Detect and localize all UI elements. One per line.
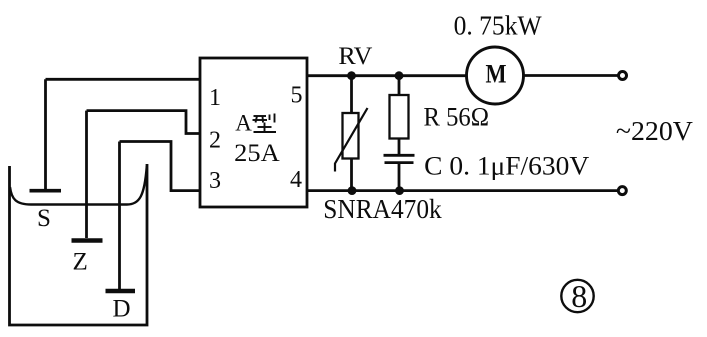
wire pin 4 to bottom terminal (bottom rail) <box>307 189 618 192</box>
terminal top <box>619 72 627 80</box>
svg-text:S: S <box>37 205 51 232</box>
node junction bottom left (RV) <box>348 186 357 195</box>
svg-text:R 56Ω: R 56Ω <box>424 103 490 132</box>
node junction top right (R tap) <box>395 71 404 80</box>
resistor R <box>390 76 409 155</box>
svg-text:SNRA470k: SNRA470k <box>323 194 442 224</box>
svg-text:RV: RV <box>338 43 372 70</box>
wire motor to top terminal <box>524 74 619 77</box>
varistor RV <box>335 76 368 191</box>
electrode S <box>30 79 62 190</box>
svg-text:4: 4 <box>290 167 302 193</box>
figure number 8 (circled) <box>561 278 593 314</box>
svg-text:C 0. 1μF/630V: C 0. 1μF/630V <box>424 152 589 181</box>
tank (electrolyte container walls and bottom) <box>10 164 148 325</box>
capacitor C <box>384 155 415 190</box>
svg-text:~220V: ~220V <box>616 116 694 146</box>
svg-text:3: 3 <box>209 168 221 194</box>
svg-text:Z: Z <box>73 249 88 276</box>
svg-text:0. 75kW: 0. 75kW <box>454 11 542 41</box>
svg-text:D: D <box>113 296 131 323</box>
svg-text:1: 1 <box>209 85 221 111</box>
wire pin 5 to motor (top rail) <box>307 74 467 77</box>
svg-text:A: A <box>235 111 252 136</box>
motor M <box>467 47 524 104</box>
node junction top left (RV tap) <box>347 71 356 80</box>
electrode Z <box>72 111 103 241</box>
svg-text:M: M <box>486 60 507 89</box>
wire D to pin 3 <box>120 142 201 191</box>
svg-text:5: 5 <box>291 83 303 109</box>
wire S to pin 1 <box>46 78 201 81</box>
node junction bottom right (C) <box>395 186 404 195</box>
svg-text:2: 2 <box>209 128 221 154</box>
electrode D <box>106 142 136 292</box>
controller U1 box (A型 25A) <box>200 58 307 207</box>
svg-text:8: 8 <box>571 278 587 314</box>
svg-text:25A: 25A <box>234 140 280 167</box>
wire Z to pin 2 <box>87 111 201 134</box>
water level (meniscus line) <box>10 166 147 205</box>
terminal bottom <box>618 187 626 195</box>
value label A型 (型 drawn as strokes) <box>235 111 276 136</box>
